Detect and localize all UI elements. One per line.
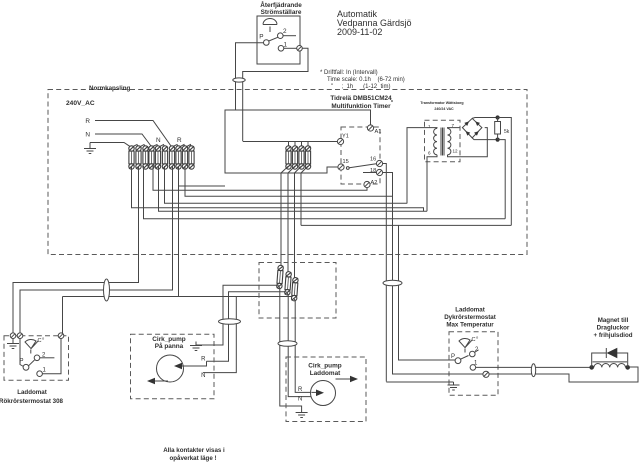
svg-text:Cirk_pump: Cirk_pump — [152, 336, 185, 343]
wire bridge plus to resistor top — [472, 117, 497, 120]
pump M2 circle — [311, 381, 336, 406]
svg-text:Normkapsling: Normkapsling — [89, 85, 130, 92]
wire bus pin6 line — [159, 166, 428, 211]
terminal X17 tilted — [291, 277, 298, 301]
timer U1 terminal 16 — [376, 160, 382, 166]
cable sleeve pump laddomat — [278, 341, 297, 347]
svg-text:Laddomat: Laddomat — [455, 307, 485, 314]
switch S1 box — [257, 16, 300, 64]
svg-text:240V_AC: 240V_AC — [66, 100, 95, 107]
thermostat B1 contact 2 — [34, 355, 40, 361]
terminal X3 — [143, 146, 148, 169]
cable sleeve pump panna — [219, 319, 241, 325]
ground in pump M1 box — [190, 342, 223, 351]
wire group3 drop to thermostat return — [178, 166, 180, 297]
timer U1 terminal 18 — [376, 169, 382, 175]
wire laddomat pump R drop — [294, 298, 312, 392]
thermostat B2 box — [449, 332, 498, 396]
wire A1 to 15 routing — [225, 110, 371, 173]
terminal X14 — [305, 146, 310, 169]
pump M1 box Cirk_pump Pa panna — [131, 334, 215, 399]
wire secondary pin12 to bridge — [448, 128, 488, 157]
cable sleeve right drop — [383, 280, 402, 286]
svg-text:Cirk_pump: Cirk_pump — [308, 363, 341, 370]
svg-text:2009-11-02: 2009-11-02 — [337, 27, 382, 37]
pump M1 R arrow — [176, 361, 207, 366]
svg-text:C: C — [38, 338, 42, 344]
svg-text:R: R — [85, 118, 90, 125]
thermostat B2 sensor flag — [459, 338, 472, 347]
pump M1 outlet arrow — [150, 380, 168, 382]
wire bus pin1 line — [165, 166, 408, 203]
svg-text:N: N — [85, 132, 90, 139]
timer U1 terminal A2 — [364, 181, 370, 187]
terminal X16 tilted — [284, 271, 291, 295]
svg-text:N: N — [298, 397, 302, 403]
timer U1 terminal Y1 — [337, 138, 343, 144]
terminal X1 — [129, 146, 134, 169]
wire bus g3t2 branch line — [179, 185, 226, 187]
wire bus g1t1 line — [132, 166, 424, 211]
svg-text:Time scale: 0.1h (6-72 min): Time scale: 0.1h (6-72 min) — [327, 77, 405, 83]
svg-text:16: 16 — [370, 157, 376, 163]
svg-text:Laddomat: Laddomat — [17, 389, 47, 396]
switch S1 lever — [269, 37, 279, 41]
terminal X15 tilted — [276, 265, 283, 289]
wire contact 1 to magnet — [476, 366, 592, 368]
cable sleeve magnet feed — [531, 364, 535, 377]
wire switch P to down run — [236, 43, 264, 110]
svg-text:Magnet till: Magnet till — [598, 317, 629, 324]
svg-text:Dykrörstermostat: Dykrörstermostat — [444, 314, 496, 321]
switch S1 contact P — [264, 40, 270, 46]
wire R feed to terminal group 3 — [95, 121, 171, 147]
thermostat B1 sensor stub — [30, 350, 32, 354]
wire bus 18 line — [185, 166, 393, 196]
svg-text:C: C — [472, 337, 476, 343]
junction dot minus — [496, 138, 500, 142]
timer U1 switch lever — [346, 167, 349, 170]
svg-text:Max Temperatur: Max Temperatur — [446, 322, 494, 329]
wire group3 drop to thermostat P — [20, 166, 173, 336]
svg-text:A1: A1 — [375, 129, 382, 135]
transformer T1 dashed outline — [425, 120, 461, 162]
transformer T1 label — [420, 101, 463, 111]
wire primary pin6 down — [427, 155, 437, 211]
svg-text:Y1: Y1 — [342, 134, 349, 140]
svg-text:12: 12 — [453, 149, 459, 154]
terminal X13 — [299, 146, 304, 169]
terminal X11 — [286, 146, 291, 169]
svg-text:Alla kontakter visas i: Alla kontakter visas i — [163, 447, 225, 454]
wire resistor plus down run to thermostat P — [399, 225, 456, 360]
thermostat B2 caption Dykrorstermostat — [444, 307, 496, 329]
terminal X9 — [182, 146, 187, 169]
wire group4 drop 3 — [295, 166, 302, 278]
svg-text:Laddomat: Laddomat — [310, 370, 341, 377]
wire resistor top loop right down — [498, 118, 512, 226]
terminal X8 — [176, 146, 181, 169]
svg-text:Transformator Wättsborg: Transformator Wättsborg — [420, 101, 463, 105]
junction dot plus — [496, 115, 500, 119]
wire bus resistor plus line — [301, 224, 511, 226]
svg-text:P: P — [19, 359, 23, 365]
thermostat B2 contact 2 — [470, 351, 476, 357]
svg-text:Tidrelä DMB51CM24: Tidrelä DMB51CM24 — [330, 95, 392, 102]
pump M2 outlet arrow — [336, 378, 352, 380]
terminal block group 4 feed ticks — [289, 141, 309, 146]
svg-text:Dragluckor: Dragluckor — [597, 325, 630, 332]
svg-text:R: R — [201, 357, 206, 363]
junction dot magnet right — [625, 365, 630, 370]
title text Automatik Vedpanna Gardsjo — [337, 9, 412, 37]
svg-text:1: 1 — [284, 42, 288, 49]
wire crossing with screw terminal — [393, 373, 566, 375]
freewheel diode D2 — [592, 353, 628, 367]
rectifier bridge D1 diamond — [462, 118, 482, 137]
wire ground run to B2 — [386, 381, 453, 383]
wire primary pin1 feed — [407, 128, 437, 204]
terminal block group 3 jumper zigzag — [172, 145, 192, 148]
svg-text:2: 2 — [283, 28, 287, 35]
cable sleeve through wall — [233, 78, 245, 82]
wire laddomat pump ground drop — [279, 286, 302, 412]
svg-text:1: 1 — [428, 124, 431, 129]
thermostat B1 contact 1 — [37, 371, 43, 377]
ground PE supply — [84, 143, 96, 154]
thermostat B1 terminal P — [17, 333, 23, 339]
wire pump feed N branch — [203, 297, 236, 373]
timer U1 label Tidrela DMB51CM24 — [330, 95, 393, 110]
terminal block group 2 jumper zigzag — [152, 145, 166, 148]
thermostat B2 contact 1 — [470, 365, 476, 371]
thermostat B2 contact P — [455, 358, 461, 364]
terminal block group 1 jumper zigzag — [132, 145, 146, 148]
ground in pump M2 box — [296, 412, 308, 418]
wire bus thermostat return line — [63, 297, 294, 337]
note Driftfall timer settings — [320, 70, 405, 90]
magnet caption — [593, 317, 632, 339]
wire group4 drop 2 — [288, 166, 295, 274]
wire bridge minus to resistor bottom — [472, 138, 497, 140]
wire switch output loop down — [243, 48, 308, 141]
rectifier bridge D1 diodes — [464, 120, 480, 136]
terminal X2 — [136, 146, 141, 169]
svg-text:*: * — [391, 100, 393, 106]
svg-text:5k: 5k — [504, 129, 510, 135]
svg-text:opåverkat läge !: opåverkat läge ! — [169, 455, 216, 462]
svg-text:R: R — [298, 387, 303, 393]
thermostat B1 sensor flag — [25, 339, 38, 348]
switch S1 contact 1 — [278, 46, 284, 52]
wire resistor bottom loop down — [498, 140, 506, 219]
wire group4 drop 1 — [281, 166, 289, 269]
svg-text:18: 18 — [370, 168, 376, 174]
terminal X4 — [149, 146, 154, 169]
ground in thermostat B2 — [448, 382, 460, 390]
wire N feed to terminal group 2 — [95, 134, 151, 146]
svg-text:Multifunktion Timer: Multifunktion Timer — [331, 103, 391, 110]
svg-text:6: 6 — [428, 151, 431, 156]
resistor R1 5k — [495, 122, 501, 135]
svg-text:240/24 VAC: 240/24 VAC — [434, 107, 454, 111]
svg-text:P: P — [259, 34, 263, 41]
svg-text:+ frihjulsdiod: + frihjulsdiod — [593, 332, 632, 339]
svg-text:R: R — [177, 137, 182, 144]
svg-text:N: N — [156, 137, 161, 144]
wire 16 down run — [383, 164, 387, 382]
thermostat B1 caption — [0, 389, 64, 405]
junction box dashed outline — [259, 263, 336, 319]
svg-text:* Driftfall: In (Intervall): * Driftfall: In (Intervall) — [320, 70, 378, 76]
thermostat B1 terminal 1 — [58, 333, 64, 339]
thermostat B1 box Rokrorstermostat — [4, 336, 69, 381]
pump M2 box Cirk_pump Laddomat — [286, 357, 366, 422]
wire PE feed to terminal group 1 — [90, 143, 131, 147]
wire group4 drop 4 — [301, 166, 308, 225]
timer U1 terminal A1 — [367, 125, 373, 131]
terminal X10 — [189, 146, 194, 169]
switch S1 label Aterfjadrande Stromstallare — [260, 0, 302, 16]
thermostat B1 contact P — [20, 339, 24, 367]
svg-text:A2: A2 — [371, 180, 378, 186]
thermostat B1 lever — [29, 360, 35, 366]
timer U1 dashed outline — [341, 127, 380, 184]
wire secondary pin7 to bridge — [448, 127, 460, 130]
wire group1 drop to lower left — [13, 166, 139, 336]
thermostat B1 terminal PE — [10, 333, 16, 339]
ground in thermostat B1 — [7, 339, 19, 349]
wire bus resistor minus line — [144, 166, 506, 219]
solenoid L1 bar — [593, 361, 628, 363]
wire laddomat pump N drop — [287, 293, 312, 397]
terminal X12 — [292, 146, 297, 169]
transformer T1 secondary winding — [448, 128, 451, 154]
svg-text:P: P — [451, 354, 455, 360]
svg-text:Återfjädrande: Återfjädrande — [260, 0, 302, 9]
thermostat B2 lever — [461, 356, 469, 360]
transformer T1 core — [441, 128, 444, 156]
switch S1 output terminal — [297, 46, 303, 52]
wire 18 down run to magnet return — [393, 196, 639, 382]
enclosure Normkapsling dashed box — [48, 90, 527, 255]
terminal X6 — [162, 146, 167, 169]
solenoid L1 coil — [594, 364, 626, 368]
pump M2 R arrow — [311, 391, 317, 393]
svg-text:På panna: På panna — [155, 342, 184, 350]
terminal X5 — [155, 146, 160, 169]
svg-text:N: N — [201, 373, 205, 379]
thermostat B2 sensor stub — [464, 349, 466, 353]
svg-text:Strömställare: Strömställare — [261, 9, 302, 16]
junction dot magnet left — [589, 365, 594, 370]
pump M1 circle — [157, 355, 184, 382]
switch S1 actuator stub — [269, 27, 271, 33]
switch S1 contact 2 — [278, 33, 284, 39]
wire bus A2 line — [153, 166, 367, 190]
terminal X7 — [169, 146, 174, 169]
switch S1 pushbutton dome — [263, 19, 277, 25]
svg-text:Rökrörstermostat 308: Rökrörstermostat 308 — [0, 398, 64, 405]
wire Y1 to switch loop — [243, 141, 338, 143]
svg-text:15: 15 — [343, 159, 349, 165]
note bottom all contacts — [163, 447, 225, 462]
transformer T1 primary winding — [434, 128, 437, 154]
wire pump feed R branch — [207, 292, 287, 362]
wire pump feed ground branch — [199, 285, 279, 345]
timer U1 terminal 15 — [338, 164, 344, 170]
cable sleeve lower left — [104, 279, 110, 301]
